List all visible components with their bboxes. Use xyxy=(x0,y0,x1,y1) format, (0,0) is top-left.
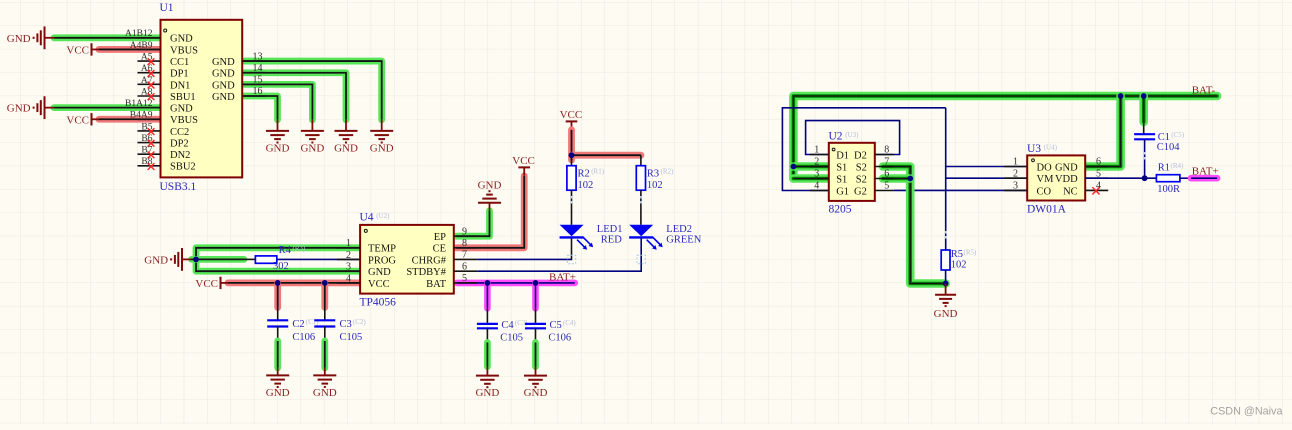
ground symbol GND at x=381.7 xyxy=(370,131,394,155)
svg-text:6: 6 xyxy=(462,261,467,272)
svg-text:GND: GND xyxy=(1055,162,1078,173)
wire S2 net stub U2 pin 6 xyxy=(883,174,910,183)
U1 pin 13 (GND) xyxy=(212,51,265,68)
svg-text:VCC: VCC xyxy=(66,44,89,56)
svg-text:DN1: DN1 xyxy=(170,80,190,91)
svg-text:102: 102 xyxy=(951,260,967,271)
svg-text:SBU2: SBU2 xyxy=(170,162,196,173)
U1 pin B5 (CC2) xyxy=(138,122,190,138)
capacitor C4 C105 xyxy=(477,319,528,344)
svg-text:TP4056: TP4056 xyxy=(360,296,397,308)
wire GND net from U1 pin 16 xyxy=(242,96,277,131)
svg-text:S2: S2 xyxy=(856,162,867,173)
svg-text:S1: S1 xyxy=(836,174,847,185)
svg-text:TEMP: TEMP xyxy=(368,244,396,255)
svg-text:CE: CE xyxy=(433,244,446,255)
U2 pin 5 (G2) xyxy=(854,181,894,198)
svg-text:VBUS: VBUS xyxy=(170,115,198,126)
svg-text:VM: VM xyxy=(1037,174,1055,185)
wire BAT- down to U3 GND pin 6 xyxy=(1085,96,1120,167)
junction node at GND/R4 split xyxy=(193,257,199,263)
ground symbol GND at x=346.0 xyxy=(334,131,358,155)
svg-text:8: 8 xyxy=(462,238,467,249)
svg-text:C4: C4 xyxy=(501,320,514,331)
power port VCC (to U1 pin B4A9) xyxy=(66,113,99,126)
svg-text:(U3): (U3) xyxy=(845,131,859,139)
svg-text:7: 7 xyxy=(884,157,889,168)
U3 pin 1 (DO) xyxy=(1004,157,1052,174)
svg-text:C106: C106 xyxy=(292,332,315,343)
U1 pin B6 (DP2) xyxy=(138,134,189,150)
U3 pin 5 (VDD) xyxy=(1055,168,1108,185)
svg-text:DP2: DP2 xyxy=(170,138,189,149)
svg-text:6: 6 xyxy=(884,169,889,180)
U3 pin 3 (CO) xyxy=(1004,181,1051,198)
wire BAT- stub to U2 pin 3 S1 xyxy=(793,174,828,183)
wire GND net to U1 pin A1B12 xyxy=(54,34,161,41)
svg-text:GND: GND xyxy=(212,69,235,80)
ground symbol below R5 xyxy=(934,284,958,321)
svg-text:7: 7 xyxy=(462,250,467,261)
svg-text:CC2: CC2 xyxy=(170,127,189,138)
svg-text:R1: R1 xyxy=(1158,163,1170,174)
svg-text:BAT+: BAT+ xyxy=(1192,165,1219,177)
svg-text:S1: S1 xyxy=(836,162,847,173)
wire R5 bottom to ground node xyxy=(945,270,947,284)
resistor R4 302 xyxy=(255,245,306,273)
U2 pin 3 (S1) xyxy=(810,169,847,186)
junction node R5/GND xyxy=(943,281,949,287)
wire GND net from U1 pin 13 xyxy=(242,61,382,131)
svg-text:C105: C105 xyxy=(500,333,523,344)
junction node BAT+/C5 xyxy=(533,280,539,286)
svg-text:4: 4 xyxy=(346,273,351,284)
U1 pin B1A12 (GND) xyxy=(125,99,193,115)
svg-text:302: 302 xyxy=(273,261,289,272)
svg-text:DP1: DP1 xyxy=(170,69,189,80)
svg-text:GND: GND xyxy=(478,179,502,191)
wire VCC down to C2 xyxy=(274,283,281,320)
svg-text:(R5): (R5) xyxy=(964,249,978,257)
svg-text:4: 4 xyxy=(814,181,819,192)
svg-text:SBU1: SBU1 xyxy=(170,92,196,103)
resistor R3 102 xyxy=(636,166,674,191)
svg-text:1: 1 xyxy=(346,238,351,249)
svg-text:VCC: VCC xyxy=(368,279,390,290)
wire GND net from U1 pin 14 xyxy=(242,73,346,131)
svg-text:USB3.1: USB3.1 xyxy=(160,181,197,193)
svg-text:GREEN: GREEN xyxy=(666,235,701,246)
svg-text:C2: C2 xyxy=(292,319,304,330)
U3 pin 4 (NC) xyxy=(1063,181,1108,198)
svg-text:BAT: BAT xyxy=(426,279,446,290)
wire VM net to U3 pin 2 xyxy=(946,177,1027,179)
svg-text:CHRG#: CHRG# xyxy=(412,255,447,266)
wire GND net from U4 EP pin 9 xyxy=(456,203,490,236)
svg-text:1: 1 xyxy=(1013,157,1018,168)
wire GND net loop to U4 TEMP pin 1 xyxy=(196,248,360,260)
svg-text:GND: GND xyxy=(524,387,548,399)
svg-text:C104: C104 xyxy=(1157,142,1181,153)
ground symbol below C2 xyxy=(266,375,290,399)
U4 pin 3 (GND) xyxy=(337,262,391,279)
svg-text:C5: C5 xyxy=(550,320,562,331)
svg-text:6: 6 xyxy=(1096,157,1101,168)
svg-text:BAT-: BAT- xyxy=(1192,84,1216,96)
svg-text:DN2: DN2 xyxy=(170,150,190,161)
svg-text:U3: U3 xyxy=(1027,143,1041,155)
U1 pin A8 (SBU1) xyxy=(138,87,196,103)
svg-text:2: 2 xyxy=(1013,168,1018,179)
svg-text:VDD: VDD xyxy=(1055,174,1078,185)
svg-text:EP: EP xyxy=(434,232,446,243)
wire C4 to ground xyxy=(486,328,488,375)
svg-text:C106: C106 xyxy=(548,333,571,344)
svg-text:C3: C3 xyxy=(340,319,352,330)
wire GND net to U1 pin B1A12 xyxy=(54,104,161,111)
svg-text:(C2): (C2) xyxy=(353,318,367,326)
wire R3 to LED2 xyxy=(640,190,642,225)
junction node C1/VDD xyxy=(1142,175,1148,181)
wire R2 to LED1 xyxy=(571,190,573,225)
wire C5 to ground xyxy=(535,328,537,375)
svg-text:DO: DO xyxy=(1037,162,1053,173)
svg-text:VCC: VCC xyxy=(66,114,89,126)
svg-text:GND: GND xyxy=(170,34,193,45)
U3 pin 2 (VM) xyxy=(1004,168,1054,185)
wire S2 net U2 pin 7 loop xyxy=(883,167,946,284)
svg-text:2: 2 xyxy=(346,250,351,261)
ground symbol below C3 xyxy=(313,375,337,399)
svg-text:VCC: VCC xyxy=(560,109,583,121)
U1 pin A7 (DN1) xyxy=(138,76,191,92)
power port GND (to U1 pin B1A12) xyxy=(7,96,54,119)
U4 pin 5 (BAT) xyxy=(426,273,477,290)
svg-text:S2: S2 xyxy=(856,174,867,185)
svg-text:3: 3 xyxy=(814,169,819,180)
wire C3 to ground xyxy=(324,327,326,376)
svg-text:8: 8 xyxy=(884,145,889,156)
junction node BAT-/S1 xyxy=(791,164,797,170)
svg-text:GND: GND xyxy=(170,104,193,115)
U2 pin 4 (G1) xyxy=(810,181,849,198)
U4 pin 2 (PROG) xyxy=(337,250,396,267)
capacitor C3 C105 xyxy=(314,318,366,343)
svg-text:U2: U2 xyxy=(829,131,843,143)
svg-text:R4: R4 xyxy=(279,245,292,256)
svg-text:(C4): (C4) xyxy=(563,319,577,327)
U1 pin A4B9 (VBUS) xyxy=(130,41,198,57)
junction node VCC/C2 xyxy=(275,280,281,286)
svg-text:CSDN @Naiva: CSDN @Naiva xyxy=(1210,405,1282,417)
svg-text:VBUS: VBUS xyxy=(170,45,198,56)
power port VCC (above CE) xyxy=(512,155,535,176)
svg-text:1: 1 xyxy=(814,145,819,156)
capacitor C5 C106 xyxy=(525,319,576,344)
svg-text:5: 5 xyxy=(884,181,889,192)
U1 pin B7 (DN2) xyxy=(138,146,191,162)
resistor R5 102 xyxy=(941,249,977,271)
svg-text:C105: C105 xyxy=(340,332,363,343)
svg-text:GND: GND xyxy=(334,143,358,155)
wire GND stub to R4 xyxy=(192,256,256,263)
svg-text:CO: CO xyxy=(1037,186,1052,197)
svg-text:CC1: CC1 xyxy=(170,57,189,68)
U1 pin 14 (GND) xyxy=(212,63,265,80)
wire VM net vertical to R5 xyxy=(945,108,947,250)
wire VCC net from U4 CE pin 8 xyxy=(456,176,524,248)
U1 pin 16 (GND) xyxy=(212,86,265,103)
wire CO net U2 pin 5 to U3 pin 3 xyxy=(894,189,1028,191)
svg-text:VCC: VCC xyxy=(512,155,535,167)
U4 pin 6 (STDBY#) xyxy=(406,261,477,278)
svg-text:102: 102 xyxy=(647,180,663,191)
power port VCC (above R2) xyxy=(560,109,583,130)
IC U2 8205 body xyxy=(829,131,875,216)
wire BAT+ down to C5 xyxy=(532,283,539,324)
svg-text:LED1: LED1 xyxy=(597,224,623,235)
U4 pin 4 (VCC) xyxy=(337,273,390,290)
junction node BAT+/C4 xyxy=(485,280,491,286)
U2 pin 7 (S2) xyxy=(856,157,894,174)
ground symbol GND at x=277.5 xyxy=(266,131,290,155)
wire STDBY# net U4 pin 6 to LED2 xyxy=(477,237,645,272)
svg-text:9: 9 xyxy=(462,226,467,237)
U2 pin 8 (D2) xyxy=(854,145,894,162)
svg-text:GND: GND xyxy=(266,387,290,399)
svg-text:G2: G2 xyxy=(854,186,867,197)
svg-text:GND: GND xyxy=(7,103,31,115)
svg-text:D2: D2 xyxy=(854,150,867,161)
svg-text:GND: GND xyxy=(934,308,958,320)
svg-text:102: 102 xyxy=(578,180,594,191)
svg-text:(C5): (C5) xyxy=(1171,131,1185,139)
power port VCC (to U1 pin A4B9) xyxy=(66,43,99,56)
svg-text:3: 3 xyxy=(1013,181,1018,192)
wire PROG net R4 to U4 pin 2 xyxy=(277,258,360,260)
power port GND (to U1 pin A1B12) xyxy=(7,26,54,49)
resistor R1 100R xyxy=(1156,162,1184,195)
svg-text:BAT+: BAT+ xyxy=(549,271,576,283)
U1 pin A5 (CC1) xyxy=(138,52,190,68)
svg-text:R3: R3 xyxy=(647,168,659,179)
U2 pin 1 (D1) xyxy=(810,145,849,162)
svg-text:GND: GND xyxy=(144,254,168,266)
U4 pin 1 (TEMP) xyxy=(337,238,396,255)
svg-text:D1: D1 xyxy=(836,150,849,161)
capacitor C2 C106 xyxy=(267,318,319,343)
wire BAT- down to C1 xyxy=(1139,96,1148,134)
svg-text:B4A9: B4A9 xyxy=(130,111,153,121)
svg-text:(R4): (R4) xyxy=(1171,162,1185,170)
svg-text:GND: GND xyxy=(266,143,290,155)
U3 pin 6 (GND) xyxy=(1055,157,1108,174)
wire C1 to VDD node xyxy=(1144,139,1146,178)
U1 pin B4A9 (VBUS) xyxy=(130,111,198,127)
connector U1 USB3.1 body xyxy=(160,2,243,193)
LED1 RED xyxy=(560,224,623,250)
svg-text:15: 15 xyxy=(253,75,263,86)
capacitor C1 C104 xyxy=(1134,131,1185,153)
svg-text:RED: RED xyxy=(601,235,622,246)
svg-text:(R2): (R2) xyxy=(661,168,675,176)
svg-text:GND: GND xyxy=(368,267,391,278)
wire BAT+ net from U4 pin 5 xyxy=(457,271,576,283)
U4 pin 7 (CHRG#) xyxy=(412,250,478,267)
svg-text:U1: U1 xyxy=(160,2,174,14)
junction node VCC/C3 xyxy=(322,280,328,286)
svg-text:(U2): (U2) xyxy=(376,212,390,220)
resistor R2 102 xyxy=(567,166,605,191)
ground symbol below C4 xyxy=(475,376,499,400)
svg-text:PROG: PROG xyxy=(368,255,396,266)
svg-text:GND: GND xyxy=(475,387,499,399)
svg-text:5: 5 xyxy=(462,273,467,284)
wire GND net loop to U4 GND pin 3 xyxy=(196,259,360,271)
svg-text:DW01A: DW01A xyxy=(1027,203,1067,215)
svg-text:2: 2 xyxy=(814,157,819,168)
wire CHRG# net U4 pin 7 to LED1 xyxy=(477,237,576,263)
U1 pin A1B12 (GND) xyxy=(125,29,193,45)
svg-text:GND: GND xyxy=(300,143,324,155)
svg-text:U4: U4 xyxy=(360,211,374,223)
svg-text:GND: GND xyxy=(212,80,235,91)
svg-text:R2: R2 xyxy=(578,168,590,179)
svg-text:14: 14 xyxy=(253,63,263,74)
junction node VCC/R2 xyxy=(569,152,575,158)
wire VCC net to U4 VCC pin 4 xyxy=(228,279,360,286)
svg-text:VCC: VCC xyxy=(195,278,218,290)
svg-text:8205: 8205 xyxy=(829,203,852,215)
wire VDD net U3 pin 5 to R1 xyxy=(1085,177,1156,179)
U4 pin 9 (EP) xyxy=(434,226,477,243)
wire BAT- stub to U2 pin 2 S1 xyxy=(793,162,828,171)
wire VCC net to U1 pin B4A9 xyxy=(99,116,161,123)
U1 pin B8 (SBU2) xyxy=(138,157,196,173)
U4 pin 8 (CE) xyxy=(433,238,478,255)
IC U3 DW01A body xyxy=(1027,143,1085,215)
wire R1 to BAT+ xyxy=(1180,165,1219,178)
wire VCC net to R2/R3 xyxy=(572,130,641,166)
wire GND net from U1 pin 15 xyxy=(242,84,312,131)
power port VCC (left of U4) xyxy=(195,277,228,290)
junction node BAT-/C1 branch xyxy=(1141,93,1147,99)
svg-text:(R3): (R3) xyxy=(293,245,307,253)
svg-text:GND: GND xyxy=(370,143,394,155)
ground symbol below C5 xyxy=(524,376,548,400)
U2 pin 6 (S2) xyxy=(856,169,894,186)
ground symbol GND at x=312.4 xyxy=(300,131,324,155)
IC U4 TP4056 body xyxy=(360,211,454,308)
U1 pin A6 (DP1) xyxy=(138,64,189,80)
svg-text:3: 3 xyxy=(346,262,351,273)
U2 pin 2 (S1) xyxy=(810,157,847,174)
svg-text:GND: GND xyxy=(313,387,337,399)
svg-text:NC: NC xyxy=(1063,186,1078,197)
junction node S2 stub xyxy=(907,176,913,182)
U1 pin 15 (GND) xyxy=(212,75,265,92)
svg-text:G1: G1 xyxy=(836,186,849,197)
svg-text:B1A12: B1A12 xyxy=(125,99,153,109)
svg-text:A4B9: A4B9 xyxy=(130,41,153,51)
svg-text:STDBY#: STDBY# xyxy=(406,267,446,278)
svg-text:(U4): (U4) xyxy=(1044,144,1058,152)
watermark CSDN @Naiva xyxy=(1210,405,1282,417)
svg-text:R5: R5 xyxy=(951,249,963,260)
svg-text:GND: GND xyxy=(212,57,235,68)
LED2 GREEN xyxy=(629,224,702,250)
svg-text:A1B12: A1B12 xyxy=(125,29,153,39)
wire DO net to U3 pin 1 xyxy=(946,166,1027,168)
power port GND (left of R4) xyxy=(144,248,191,271)
wire D1-D2 tie U2 pins 1,8 xyxy=(806,121,900,155)
svg-text:GND: GND xyxy=(212,92,235,103)
ground symbol above U4 EP xyxy=(478,179,502,202)
wire BAT+ down to C4 xyxy=(484,283,491,324)
svg-text:LED2: LED2 xyxy=(666,224,692,235)
wire BAT- net main run xyxy=(793,84,1217,178)
svg-text:100R: 100R xyxy=(1157,184,1180,195)
svg-text:GND: GND xyxy=(7,33,31,45)
svg-text:16: 16 xyxy=(253,86,263,97)
wire VCC down to C3 xyxy=(321,283,328,320)
junction node BAT-/U3 GND branch xyxy=(1118,93,1124,99)
wire VCC net to U1 pin A4B9 xyxy=(99,46,161,53)
svg-text:13: 13 xyxy=(253,51,263,62)
wire G1 net U2 pin 4 to node xyxy=(782,108,945,191)
wire C2 to ground xyxy=(277,327,279,376)
svg-text:(R1): (R1) xyxy=(591,168,605,176)
